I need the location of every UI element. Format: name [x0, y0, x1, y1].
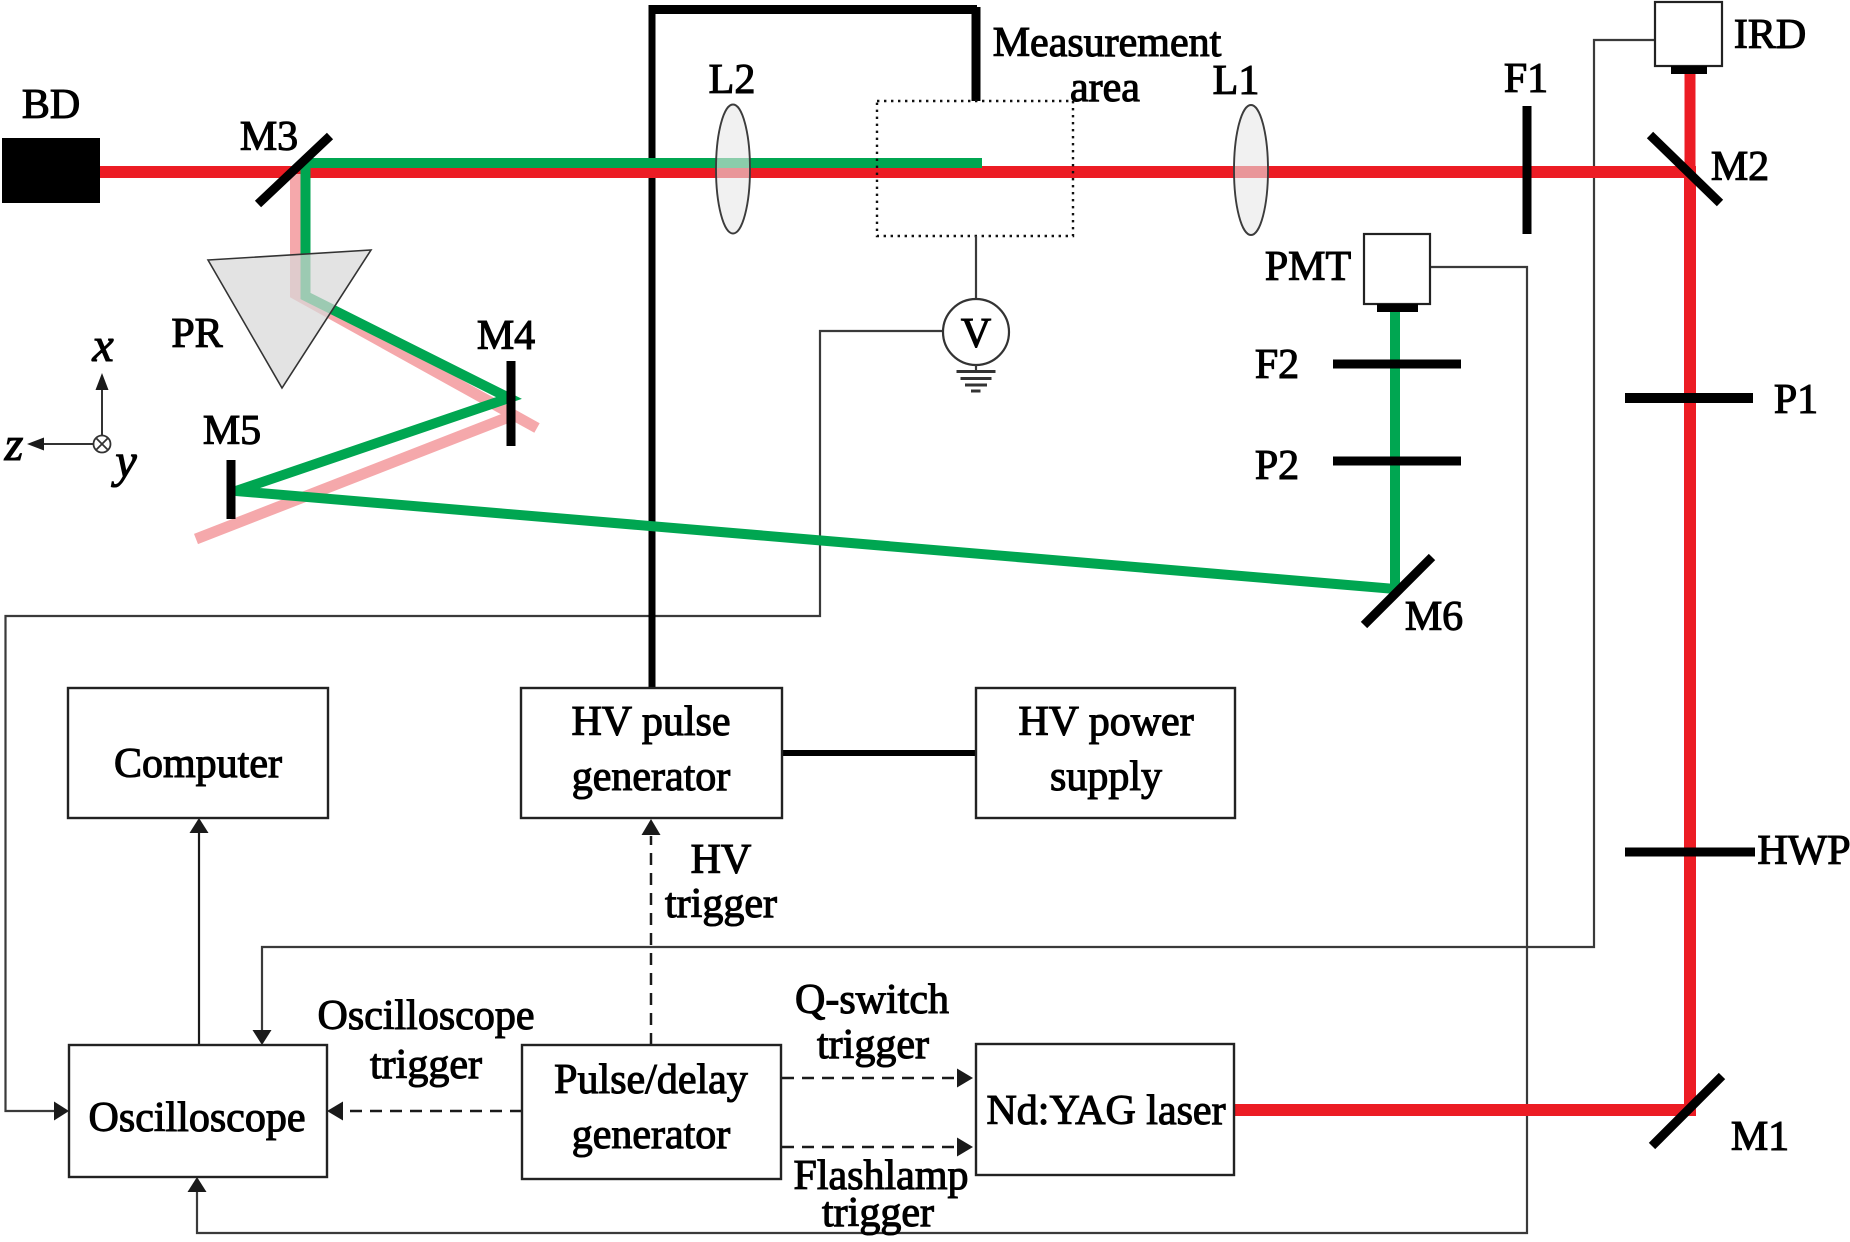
- wire measurement area to voltmeter: [975, 236, 977, 299]
- svg-text:trigger: trigger: [370, 1042, 482, 1088]
- svg-text:HV power: HV power: [1018, 699, 1193, 745]
- dashed oscilloscope trigger arrow: [327, 1102, 522, 1121]
- filter F1: [1523, 106, 1532, 234]
- svg-text:L2: L2: [709, 57, 756, 103]
- svg-text:F2: F2: [1255, 342, 1299, 388]
- svg-text:z: z: [4, 418, 24, 471]
- box HV power supply: [976, 688, 1235, 818]
- svg-text:M4: M4: [477, 313, 535, 359]
- lens L1: [1234, 105, 1268, 235]
- dashed Q-switch trigger arrow: [782, 1069, 973, 1088]
- svg-text:Oscilloscope: Oscilloscope: [318, 993, 535, 1039]
- mirror M3: [258, 136, 330, 204]
- mirror M5: [227, 460, 236, 519]
- wire voltmeter-to-oscilloscope: [6, 331, 945, 1121]
- svg-text:HWP: HWP: [1757, 828, 1850, 874]
- svg-text:x: x: [91, 319, 113, 372]
- svg-text:trigger: trigger: [665, 881, 777, 927]
- box Nd:YAG laser: [976, 1044, 1234, 1175]
- wire PMT-to-oscilloscope: [188, 267, 1528, 1233]
- green beam M3-prism-M4-M5-M6-PMT: [236, 167, 1395, 589]
- dashed HV trigger arrow: [642, 819, 661, 1045]
- beam dump BD: [2, 138, 100, 203]
- PMT detector: [1364, 234, 1430, 312]
- box Oscilloscope: [69, 1045, 327, 1177]
- half-wave plate HWP: [1625, 848, 1755, 857]
- dashed flashlamp trigger arrow: [782, 1138, 973, 1157]
- thick wire HV pulse generator to HV power supply: [782, 750, 976, 756]
- svg-text:HV pulse: HV pulse: [571, 699, 730, 745]
- svg-text:P1: P1: [1774, 377, 1818, 423]
- svg-text:M1: M1: [1731, 1114, 1789, 1160]
- mirror M2: [1650, 135, 1720, 203]
- pink residual beam M4 past M5: [196, 415, 514, 539]
- svg-text:IRD: IRD: [1734, 12, 1806, 58]
- measurement area dotted box: [877, 101, 1073, 236]
- red laser beam path laser-M1-M2-BD: [98, 172, 1690, 1110]
- svg-text:PMT: PMT: [1265, 244, 1351, 290]
- svg-text:M6: M6: [1405, 594, 1463, 640]
- polarizer P1: [1625, 393, 1753, 403]
- svg-text:P2: P2: [1255, 443, 1299, 489]
- svg-text:trigger: trigger: [817, 1022, 929, 1068]
- polarizer P2: [1333, 457, 1461, 466]
- svg-text:supply: supply: [1050, 754, 1162, 800]
- prism PR: [208, 250, 371, 388]
- svg-text:Nd:YAG laser: Nd:YAG laser: [986, 1088, 1225, 1134]
- svg-text:Pulse/delay: Pulse/delay: [554, 1057, 748, 1103]
- coordinate axes: [27, 373, 111, 453]
- svg-text:PR: PR: [171, 311, 222, 357]
- svg-text:area: area: [1070, 65, 1140, 111]
- svg-text:y: y: [110, 435, 137, 488]
- svg-text:HV: HV: [691, 837, 752, 883]
- green beam horizontal measurement-area to M3: [303, 158, 982, 168]
- thick wire HV pulse generator to measurement area: [649, 7, 978, 688]
- svg-text:BD: BD: [22, 82, 80, 128]
- svg-text:L1: L1: [1213, 58, 1260, 104]
- pink residual beam M3-prism-M4: [296, 174, 538, 428]
- mirror M4: [507, 361, 516, 446]
- svg-text:M3: M3: [240, 114, 298, 160]
- svg-text:trigger: trigger: [822, 1190, 934, 1236]
- lens L2: [716, 105, 750, 234]
- svg-text:Measurement: Measurement: [993, 20, 1222, 66]
- ground: [957, 365, 996, 391]
- box Computer: [68, 688, 328, 818]
- svg-text:M5: M5: [203, 408, 261, 454]
- box Pulse/delay generator: [522, 1045, 781, 1179]
- voltmeter V: [943, 299, 1009, 365]
- mirror M1: [1652, 1076, 1722, 1146]
- svg-text:M2: M2: [1711, 144, 1769, 190]
- svg-text:generator: generator: [572, 754, 731, 800]
- svg-text:generator: generator: [572, 1112, 731, 1158]
- svg-text:Q-switch: Q-switch: [795, 977, 949, 1023]
- svg-text:Oscilloscope: Oscilloscope: [89, 1095, 306, 1141]
- svg-text:Computer: Computer: [114, 741, 282, 787]
- IRD detector: [1655, 2, 1722, 74]
- wire IRD-to-oscilloscope: [253, 40, 1656, 1045]
- red beam stub M2 to IRD: [1685, 74, 1696, 176]
- wire oscilloscope-to-computer: [190, 818, 209, 1045]
- svg-text:V: V: [961, 311, 991, 357]
- mirror M6: [1364, 557, 1432, 625]
- svg-text:F1: F1: [1504, 56, 1548, 102]
- filter F2: [1333, 360, 1461, 369]
- box HV pulse generator: [521, 688, 782, 818]
